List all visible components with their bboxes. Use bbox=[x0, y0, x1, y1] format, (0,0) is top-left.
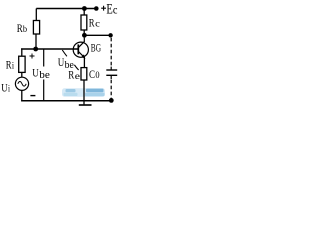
wire: dashed output branch upper bbox=[110, 38, 112, 67]
wire: emitter down lead bbox=[83, 58, 85, 68]
svg-text:U: U bbox=[32, 67, 39, 79]
resistor Re bbox=[81, 68, 87, 80]
label +Ec bbox=[101, 6, 106, 11]
transistor BG emitter lead with arrow bbox=[79, 52, 85, 58]
node: collector junction dot bbox=[82, 33, 87, 38]
wire: Rc top lead bbox=[83, 9, 85, 16]
svg-text:i: i bbox=[12, 62, 14, 72]
wire: base rail bbox=[21, 48, 78, 50]
svg-text:i: i bbox=[8, 85, 10, 95]
transistor BG circle bbox=[73, 42, 88, 57]
source Ui circle bbox=[15, 77, 28, 90]
svg-text:c: c bbox=[113, 3, 118, 17]
svg-text:BG: BG bbox=[91, 43, 101, 55]
resistor Ri bbox=[19, 56, 25, 72]
ground bbox=[83, 101, 85, 105]
tick: Ube arc lower (points to emitter) bbox=[74, 65, 78, 70]
svg-text:R: R bbox=[68, 70, 74, 82]
wire: Re to bottom rail bbox=[83, 80, 85, 101]
svg-text:b: b bbox=[23, 25, 27, 35]
svg-text:e: e bbox=[75, 72, 80, 82]
node: +Ec terminal dot bbox=[94, 6, 99, 11]
node: bottom right dot bbox=[109, 98, 114, 103]
transistor BG base bar bbox=[77, 44, 79, 54]
source Ui sine bbox=[18, 82, 26, 87]
wire: Ri to source bbox=[21, 72, 23, 77]
node: output dot bbox=[108, 33, 112, 37]
svg-text:c: c bbox=[95, 20, 100, 30]
capacitor C0 bottom plate bbox=[106, 74, 117, 76]
wire: Ube measurement line upper bbox=[43, 49, 45, 67]
resistor Rc bbox=[81, 15, 87, 30]
svg-text:0: 0 bbox=[95, 71, 99, 81]
tick: Ube arc upper (crosses base wire) bbox=[62, 50, 67, 56]
wire: dashed output branch lower bbox=[110, 75, 112, 79]
resistor Rb bbox=[33, 21, 39, 35]
wire: collector rail to output bbox=[84, 34, 110, 36]
svg-text:R: R bbox=[89, 18, 95, 30]
wire: Ube measurement line lower bbox=[43, 80, 45, 101]
wire: source to ground rail bbox=[21, 90, 23, 100]
label - (Ube polarity) bbox=[30, 95, 35, 97]
wire: Rb top lead bbox=[35, 9, 37, 21]
wire: left branch down to Ri bbox=[21, 48, 23, 56]
svg-text:C: C bbox=[89, 69, 95, 81]
label + (Ube polarity) bbox=[30, 54, 35, 59]
wire: top supply rail bbox=[36, 8, 96, 10]
capacitor C0 top plate bbox=[106, 69, 117, 71]
svg-text:be: be bbox=[39, 70, 50, 81]
node: top rail junction dot bbox=[82, 6, 87, 11]
node: base junction dot bbox=[33, 47, 38, 52]
wire: bottom rail bbox=[21, 100, 111, 102]
wire: Rc bottom lead bbox=[83, 30, 85, 35]
wire: Rb bottom lead bbox=[35, 34, 37, 49]
watermark bbox=[62, 88, 105, 96]
transistor BG collector lead bbox=[79, 38, 85, 48]
